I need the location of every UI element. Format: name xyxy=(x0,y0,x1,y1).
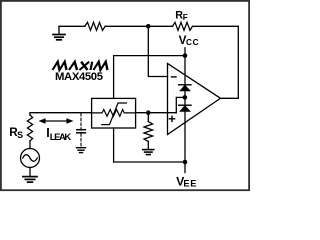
signal-line protector U2 MAX4505 box xyxy=(92,98,136,128)
wire: RS top stub xyxy=(29,113,31,115)
source VS (AC) xyxy=(21,149,40,168)
svg-text:EE: EE xyxy=(183,179,196,189)
svg-text:MAX4505: MAX4505 xyxy=(55,71,103,83)
wire: VCC rail xyxy=(114,55,185,57)
wire: feedback node to RF xyxy=(148,25,172,27)
ground (below source) xyxy=(23,177,37,183)
svg-text:F: F xyxy=(183,13,188,22)
label ILEAK xyxy=(46,126,71,143)
diode D2 xyxy=(179,105,191,111)
resistor RF xyxy=(173,22,193,30)
label VCC xyxy=(179,34,199,47)
wire: VEE rail xyxy=(114,161,185,163)
wire: feedback node down to inverting input xyxy=(148,26,167,76)
capacitor C1 (parasitic, dashed leads) xyxy=(77,113,86,147)
wire: clamp chain vertical VCC to VEE xyxy=(184,56,186,162)
wire: U2 output to noninverting input xyxy=(136,112,177,114)
protector symbol inside U2: limiter S-curve xyxy=(102,103,127,125)
svg-text:S: S xyxy=(17,130,23,140)
protector symbol inside U2: resistor xyxy=(92,110,136,117)
wire: RF to right side xyxy=(193,25,239,27)
wire: clamp midpoint to noninverting input xyxy=(176,97,185,112)
ground (below R2) xyxy=(143,150,154,155)
resistor R1 xyxy=(85,22,105,30)
wire: source node to U2 input xyxy=(30,112,92,114)
label RS xyxy=(9,126,23,140)
op-amp inverting input minus sign xyxy=(172,76,177,78)
svg-text:CC: CC xyxy=(186,38,199,47)
wire: RS to source xyxy=(29,141,31,149)
svg-text:LEAK: LEAK xyxy=(50,132,72,143)
wire: R2 to ground xyxy=(147,142,149,149)
ground (below C1) xyxy=(77,148,86,153)
op-amp noninverting input plus sign xyxy=(169,116,174,121)
ground (top left) xyxy=(53,26,65,40)
wire: ground to R1 xyxy=(59,25,85,27)
wire: R1 to feedback node xyxy=(105,25,148,27)
wire: source to ground xyxy=(29,168,31,177)
label MAXIM logo xyxy=(53,62,110,70)
wire: VCC stub xyxy=(184,48,186,56)
arrow ILEAK (double-headed) xyxy=(39,118,74,124)
node: noninverting input junction xyxy=(146,110,151,115)
label RF xyxy=(175,10,187,23)
node: VEE junction xyxy=(183,160,188,165)
resistor RS xyxy=(27,115,32,141)
op-amp U1 xyxy=(168,64,221,135)
label VEE xyxy=(176,175,196,189)
node: VCC junction xyxy=(183,53,188,58)
wire: VEE stub xyxy=(184,162,186,173)
wire: junction to R2 xyxy=(147,113,149,122)
node: feedback junction xyxy=(146,24,151,29)
wire: U2 V- pin to VEE rail xyxy=(113,128,115,162)
wire: U2 V+ pin to VCC xyxy=(113,56,115,99)
node: clamp midpoint xyxy=(183,95,188,100)
wire: feedback right vertical to op-amp output xyxy=(221,26,239,98)
diode D1 xyxy=(179,85,191,91)
resistor R2 (bias resistor) xyxy=(144,122,153,142)
